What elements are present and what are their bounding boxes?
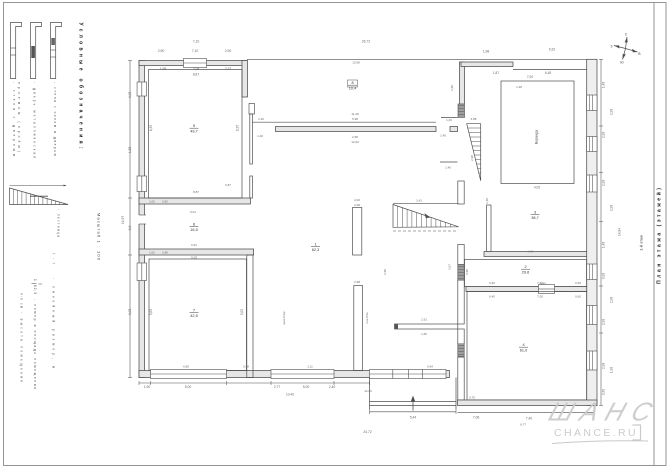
exterior wall bottom-right — [458, 400, 598, 406]
svg-text:проемом (проём): проемом (проём) — [17, 82, 21, 152]
svg-text:4,05: 4,05 — [534, 186, 540, 190]
svg-text:2,98: 2,98 — [450, 85, 454, 91]
window right wall — [587, 175, 597, 192]
svg-text:2,77: 2,77 — [274, 385, 281, 389]
svg-text:7,10: 7,10 — [192, 49, 199, 53]
svg-text:49,7: 49,7 — [190, 129, 197, 133]
svg-text:1,56: 1,56 — [421, 332, 427, 336]
svg-text:6,77: 6,77 — [520, 423, 526, 427]
metal door 2 center-right (hatched) — [458, 344, 464, 357]
svg-text:2,98: 2,98 — [354, 280, 360, 284]
window corridor upper — [249, 104, 255, 115]
porch dimension line — [370, 411, 457, 413]
hall top wall line — [247, 58, 459, 60]
legend symbol: wall with window and door — [51, 23, 62, 79]
svg-text:7,08: 7,08 — [473, 416, 480, 420]
legend symbol: staircase — [10, 185, 67, 187]
svg-text:8: 8 — [351, 81, 353, 85]
bottom-right dimension line — [458, 411, 595, 413]
svg-text:1,98: 1,98 — [610, 367, 614, 373]
svg-text:7,40: 7,40 — [526, 417, 533, 421]
svg-text:0,30: 0,30 — [602, 389, 606, 395]
svg-text:6,87: 6,87 — [225, 183, 231, 187]
svg-text:6,48: 6,48 — [545, 71, 551, 75]
corridor door jamb line — [441, 117, 458, 119]
svg-text:2,98: 2,98 — [352, 135, 358, 139]
svg-text:4,05: 4,05 — [128, 92, 132, 99]
svg-text:пох.Сба: пох.Сба — [365, 312, 369, 323]
window left wall — [137, 82, 147, 96]
svg-text:38,7: 38,7 — [531, 216, 538, 220]
svg-text:8,87: 8,87 — [193, 190, 199, 194]
svg-text:0,90: 0,90 — [162, 200, 168, 204]
svg-text:14,26: 14,26 — [364, 389, 372, 393]
window right wall — [587, 264, 597, 280]
svg-text:2,00: 2,00 — [149, 251, 155, 255]
svg-text:5,98: 5,98 — [352, 117, 358, 121]
wall corridor right upper — [250, 114, 253, 164]
svg-text:6,91: 6,91 — [191, 243, 197, 247]
svg-text:2,98: 2,98 — [610, 109, 614, 115]
svg-text:9,01: 9,01 — [190, 210, 196, 214]
svg-text:1,40: 1,40 — [258, 117, 264, 121]
svg-text:6,40: 6,40 — [489, 295, 495, 299]
right dimension line — [600, 59, 602, 405]
top-right block bottom wall — [484, 252, 587, 257]
svg-text:п-п см: п-п см — [20, 293, 24, 308]
svg-text:0,98: 0,98 — [243, 365, 249, 369]
svg-text:16,97: 16,97 — [121, 216, 125, 225]
svg-text:6,35: 6,35 — [236, 125, 240, 131]
wall piece above basement stair — [458, 181, 464, 204]
wall room5/room6 — [139, 198, 250, 204]
svg-text:4: 4 — [522, 343, 524, 347]
svg-text:26,72: 26,72 — [362, 40, 371, 44]
svg-text:0,94: 0,94 — [427, 365, 433, 369]
svg-text:6,35: 6,35 — [149, 125, 153, 131]
staircase to basement — [393, 202, 459, 204]
top-right block top wall segment — [461, 62, 513, 67]
svg-text:- высота помещения: - высота помещения — [20, 312, 24, 382]
top-right block outline — [459, 58, 598, 60]
svg-text:7,00: 7,00 — [537, 281, 543, 285]
svg-text:4,40: 4,40 — [527, 250, 533, 254]
top-right block left wall — [460, 62, 465, 104]
staircase — [467, 124, 481, 181]
svg-text:1,48: 1,48 — [516, 85, 522, 89]
svg-text:0,60: 0,60 — [575, 281, 581, 285]
top-right block inner top line — [513, 69, 587, 71]
svg-text:24,72: 24,72 — [363, 430, 372, 434]
svg-text:5,05: 5,05 — [240, 309, 244, 315]
svg-text:29,6: 29,6 — [522, 270, 529, 274]
svg-text:7,10: 7,10 — [193, 40, 200, 44]
svg-text:10,46: 10,46 — [286, 393, 294, 397]
window bottom wall — [151, 370, 227, 379]
svg-text:1,11: 1,11 — [307, 365, 313, 369]
svg-text:З: З — [611, 45, 613, 49]
window right wall — [587, 95, 597, 111]
svg-text:2,08: 2,08 — [354, 203, 360, 207]
svg-text:2,98: 2,98 — [602, 180, 606, 186]
svg-text:2: 2 — [524, 265, 526, 269]
svg-text:0,98: 0,98 — [162, 251, 168, 255]
svg-text:1,90: 1,90 — [144, 385, 151, 389]
svg-text:6,88: 6,88 — [471, 117, 477, 121]
legend symbol: metal door — [31, 23, 42, 79]
thin wall below veranda — [487, 205, 492, 252]
svg-text:2,00: 2,00 — [149, 200, 155, 204]
svg-text:42,5: 42,5 — [190, 314, 197, 318]
porch entrance arrow — [412, 399, 414, 411]
exterior wall top (room 5) — [139, 61, 247, 66]
wall room2/room4 — [466, 287, 587, 292]
door room4 — [539, 285, 555, 294]
corridor wall thin line — [252, 121, 436, 123]
watermark — [545, 397, 663, 439]
partition stub lower — [354, 286, 363, 371]
svg-text:1,98: 1,98 — [160, 67, 167, 71]
svg-text:7,00: 7,00 — [527, 75, 533, 79]
corridor wall thick stub right — [450, 127, 458, 132]
wall center-right lower (thin) — [458, 357, 464, 400]
exterior wall left — [139, 61, 145, 378]
window left wall — [137, 176, 147, 192]
veranda rectangle — [501, 81, 574, 184]
wall room6/room7 — [139, 249, 254, 255]
wall center-right mid (thin) — [458, 280, 464, 324]
svg-text:2,91: 2,91 — [421, 318, 427, 322]
north arrow — [614, 37, 638, 60]
window bottom wall — [271, 370, 334, 379]
svg-text:6,9: 6,9 — [128, 226, 132, 231]
svg-text:5,00: 5,00 — [185, 385, 192, 389]
corridor partition near stair — [440, 161, 458, 163]
svg-text:14,84: 14,84 — [618, 228, 622, 236]
svg-text:2,98: 2,98 — [602, 363, 606, 369]
svg-text:1,98: 1,98 — [483, 50, 490, 54]
room 7 inner outline — [149, 259, 247, 371]
svg-text:0,70: 0,70 — [469, 396, 475, 400]
svg-text:1: 1 — [314, 243, 316, 247]
svg-text:1,40: 1,40 — [446, 118, 452, 122]
wall room7 right — [247, 255, 253, 378]
svg-text:Веранда: Веранда — [535, 130, 539, 144]
svg-text:2,98: 2,98 — [470, 155, 474, 161]
svg-text:4,05: 4,05 — [128, 309, 132, 316]
svg-text:5,00: 5,00 — [303, 385, 310, 389]
svg-text:1,48: 1,48 — [602, 82, 606, 88]
svg-text:12,93: 12,93 — [351, 140, 359, 144]
svg-text:2,98: 2,98 — [602, 132, 606, 138]
svg-text:2,90: 2,90 — [158, 49, 165, 53]
svg-text:3: 3 — [534, 211, 536, 215]
legend symbol: wall with door opening — [11, 23, 22, 79]
svg-text:0,60: 0,60 — [575, 295, 581, 299]
svg-text:8,87: 8,87 — [193, 73, 199, 77]
bottom dimension line — [139, 382, 370, 384]
corridor wall thick — [276, 127, 437, 132]
svg-text:62,3: 62,3 — [312, 248, 319, 252]
svg-text:Масштаб 1 : 100: Масштаб 1 : 100 — [97, 213, 102, 261]
svg-text:(низ.Сба): (низ.Сба) — [282, 311, 286, 324]
wall room5 right — [242, 61, 248, 98]
svg-text:6: 6 — [193, 223, 195, 227]
svg-text:5: 5 — [193, 124, 195, 128]
svg-text:16,5: 16,5 — [190, 228, 197, 232]
svg-text:62,3: 62,3 — [33, 285, 37, 294]
svg-text:0,98: 0,98 — [465, 269, 469, 275]
svg-text:1: 1 — [33, 279, 37, 281]
svg-text:7,00: 7,00 — [537, 295, 543, 299]
svg-text:6,40: 6,40 — [489, 281, 495, 285]
svg-text:ШАНС: ШАНС — [545, 397, 663, 426]
svg-text:1,41: 1,41 — [416, 199, 422, 203]
door frame center-right — [458, 245, 464, 265]
svg-text:1,40: 1,40 — [257, 134, 263, 138]
svg-text:1,48: 1,48 — [602, 242, 606, 248]
exterior wall bottom — [139, 371, 450, 378]
svg-text:- лестница: - лестница — [57, 209, 61, 237]
hatched window above stair — [458, 104, 465, 118]
svg-text:5,05: 5,05 — [191, 256, 197, 260]
window left wall — [137, 263, 147, 281]
svg-text:1,87: 1,87 — [493, 71, 499, 75]
svg-text:2,98: 2,98 — [610, 297, 614, 303]
room 4 inner outline — [467, 292, 587, 401]
svg-text:11,48: 11,48 — [351, 112, 359, 116]
room 5 inner outline — [149, 70, 243, 199]
svg-text:2,90: 2,90 — [225, 49, 232, 53]
window top wall — [184, 59, 207, 68]
wall stub horizontal — [395, 324, 458, 329]
svg-text:2,37: 2,37 — [225, 67, 232, 71]
svg-text:1-й этаж: 1-й этаж — [639, 235, 644, 251]
strip room inner lines — [465, 260, 587, 287]
svg-text:5,05: 5,05 — [149, 309, 153, 315]
window right wall — [587, 306, 597, 325]
exterior wall right — [587, 59, 597, 405]
svg-text:13,98: 13,98 — [352, 61, 360, 65]
svg-text:2,00: 2,00 — [354, 198, 360, 202]
svg-text:Условные обозначения:: Условные обозначения: — [78, 23, 85, 149]
svg-text:1,40: 1,40 — [440, 134, 446, 138]
svg-text:3,57: 3,57 — [448, 264, 452, 270]
window right wall — [587, 351, 597, 370]
metal door center-right (hatched) — [458, 265, 464, 280]
svg-text:В: В — [638, 52, 640, 56]
svg-text:2,98: 2,98 — [610, 205, 614, 211]
wall corridor right lower piece — [250, 176, 253, 198]
svg-text:2,98: 2,98 — [383, 269, 387, 275]
svg-text:2,40: 2,40 — [329, 385, 336, 389]
window right wall — [587, 137, 597, 152]
svg-text:1,40: 1,40 — [445, 166, 451, 170]
svg-text:7,08: 7,08 — [193, 67, 200, 71]
partition stub upper — [353, 208, 362, 256]
window bottom wall wide — [370, 370, 447, 379]
svg-text:CHANCE.RU: CHANCE.RU — [554, 427, 638, 439]
svg-text:1,48: 1,48 — [485, 198, 489, 204]
wall center-right mid2 (thin) — [458, 329, 464, 344]
porch — [369, 378, 371, 410]
svg-text:7: 7 — [193, 309, 195, 313]
svg-text:61,0: 61,0 — [520, 348, 527, 352]
left dimension line — [129, 61, 131, 378]
svg-text:6,80: 6,80 — [183, 365, 189, 369]
svg-text:2,98: 2,98 — [602, 319, 606, 325]
svg-text:9,32: 9,32 — [549, 48, 556, 52]
svg-text:5,44: 5,44 — [410, 416, 417, 420]
svg-text:1,25: 1,25 — [128, 147, 132, 154]
svg-text:0,98: 0,98 — [602, 273, 606, 279]
